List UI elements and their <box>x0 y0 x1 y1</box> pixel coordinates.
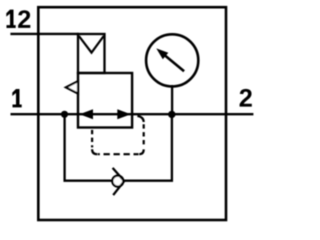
wire from check valve to node B <box>123 114 172 180</box>
dashed pilot feedback line <box>92 116 144 154</box>
regulator valve body <box>78 73 132 128</box>
port label 12 <box>6 10 30 28</box>
check valve circle <box>112 176 123 187</box>
main line port 1 to port 2 <box>11 113 254 115</box>
check valve seat <box>113 168 125 195</box>
enclosure box (service unit frame) <box>38 7 226 220</box>
gauge stem wire <box>171 85 173 114</box>
pressure gauge circle <box>146 34 198 86</box>
flow arrowhead right <box>117 109 131 119</box>
spring box (adjustment spring housing) <box>78 34 105 73</box>
port label 1 <box>12 89 21 107</box>
pilot triangle on valve <box>66 81 78 93</box>
gauge needle shaft <box>165 56 184 72</box>
spring V <box>79 36 104 53</box>
port label 2 <box>240 89 252 107</box>
branch wire down from node A <box>65 114 113 180</box>
gauge needle head <box>156 48 168 59</box>
junction node A <box>61 111 68 118</box>
pilot line 12 <box>10 33 79 35</box>
flow arrowhead left <box>80 109 94 119</box>
junction node B <box>168 111 175 118</box>
